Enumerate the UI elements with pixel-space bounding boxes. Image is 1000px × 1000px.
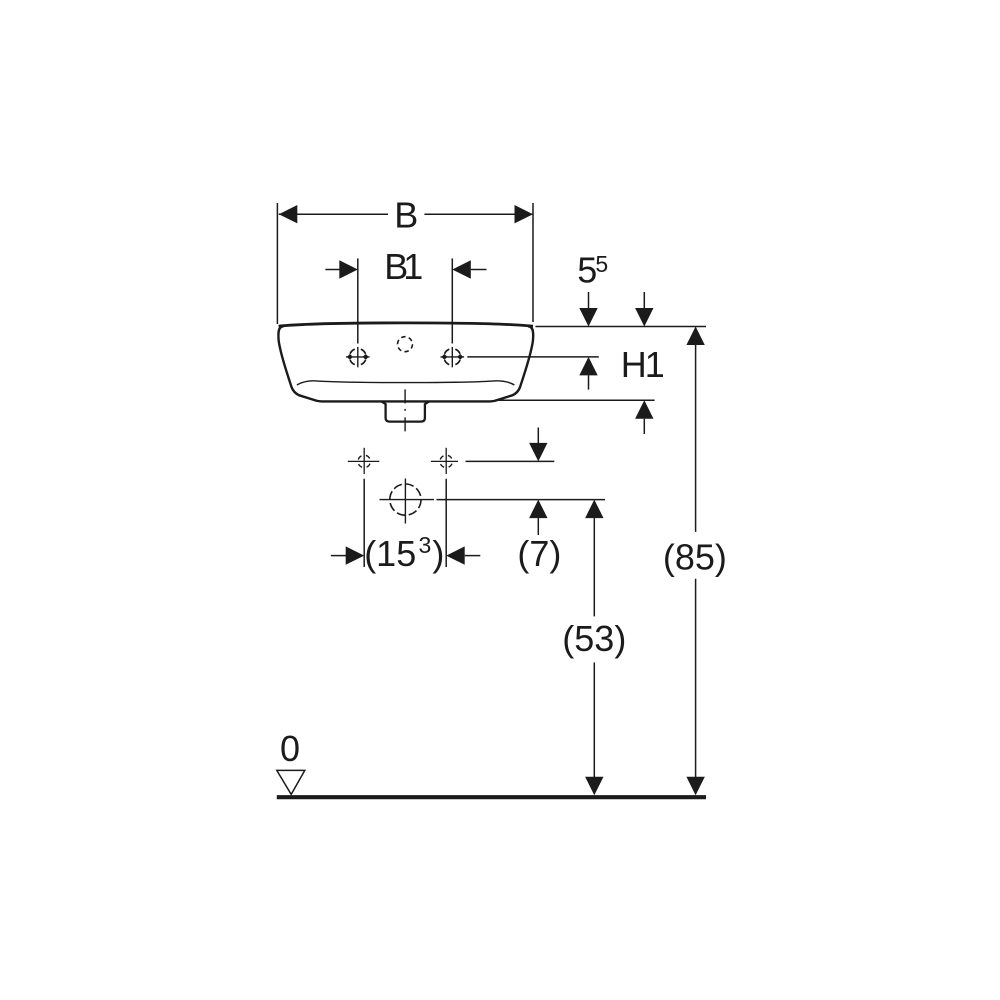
svg-text:(53): (53) [562, 618, 626, 659]
tap hole left [346, 347, 370, 367]
dimension 15-3 arrowhead right [446, 546, 465, 564]
dimension B extension line right [532, 203, 534, 322]
dimension B extension line left [276, 203, 278, 324]
drain centerline [404, 389, 406, 432]
dimension 15-3 arrow tail left [331, 555, 346, 557]
svg-text:(85): (85) [663, 536, 727, 577]
dimension 53 lower arrowhead [585, 777, 603, 796]
siphon level line [437, 499, 606, 501]
dimension B1 extension line right [451, 258, 453, 343]
dimension B1 extension line left [357, 258, 359, 343]
drain outlet [382, 401, 430, 421]
mounting hole leader line [466, 460, 555, 462]
svg-text:(15: (15 [364, 533, 416, 574]
dimension 5-5 lower arrowhead [579, 357, 597, 376]
dimension B line left segment [279, 213, 388, 215]
dimension 7 upper arrow tail [537, 428, 539, 444]
mounting hole left [348, 448, 380, 474]
floor line [277, 795, 706, 799]
top surface extension line [536, 326, 707, 328]
dimension 15-3 extension line right [445, 479, 447, 567]
dimension H1 lower arrowhead [635, 400, 653, 419]
washbasin top edge [279, 323, 533, 326]
svg-text:(7): (7) [517, 533, 561, 574]
datum symbol triangle [277, 770, 305, 794]
dimension 5-5 lower arrow tail [588, 375, 590, 389]
tap hole leader line [467, 356, 599, 358]
dimension 15-3 arrowhead left [346, 546, 365, 564]
dimension 85 line lower segment [695, 579, 697, 777]
basin bottom extension line [496, 399, 655, 401]
dimension 15-3 extension line left [363, 479, 365, 567]
dimension 85 upper arrowhead [686, 327, 704, 346]
dimension 53 line upper segment [593, 518, 595, 616]
dimension 7 upper arrowhead [529, 443, 547, 462]
dimension B1 arrow tail right [471, 269, 487, 271]
dimension 5-5 upper arrow tail [588, 292, 590, 309]
dimension 85 lower arrowhead [686, 777, 704, 796]
dimension B1 arrow tail left [325, 269, 340, 271]
dimension B arrowhead left [279, 205, 298, 223]
svg-text:5: 5 [595, 251, 608, 277]
svg-text:): ) [432, 533, 444, 574]
dimension B line right segment [424, 213, 533, 215]
dimension 15-3 arrow tail right [465, 555, 481, 557]
dimension H1 upper arrow tail [643, 292, 645, 309]
dimension B1 arrowhead right [452, 260, 471, 278]
overflow hole dashed circle [398, 337, 413, 352]
dimension 85 line upper segment [695, 345, 697, 532]
svg-text:5: 5 [577, 250, 597, 291]
dimension H1 lower arrow tail [643, 419, 645, 434]
dimension B arrowhead right [515, 205, 534, 223]
svg-text:3: 3 [419, 532, 432, 558]
svg-text:B1: B1 [384, 246, 423, 287]
dimension 7 lower arrow tail [537, 518, 539, 535]
mounting hole right [431, 448, 458, 474]
tap hole right [441, 347, 465, 367]
washbasin inner edge [297, 381, 515, 385]
dimension H1 upper arrowhead [635, 308, 653, 327]
dimension 5-5 upper arrowhead [579, 308, 597, 327]
siphon circle [380, 479, 435, 524]
dimension 53 line lower segment [593, 662, 595, 777]
washbasin outline [278, 326, 533, 401]
dimension 7 lower arrowhead [529, 500, 547, 518]
dimension 53 upper arrowhead [585, 500, 603, 518]
dimension B1 arrowhead left [339, 260, 358, 278]
svg-text:H1: H1 [621, 344, 665, 385]
svg-text:0: 0 [280, 728, 300, 769]
svg-text:B: B [394, 194, 418, 235]
